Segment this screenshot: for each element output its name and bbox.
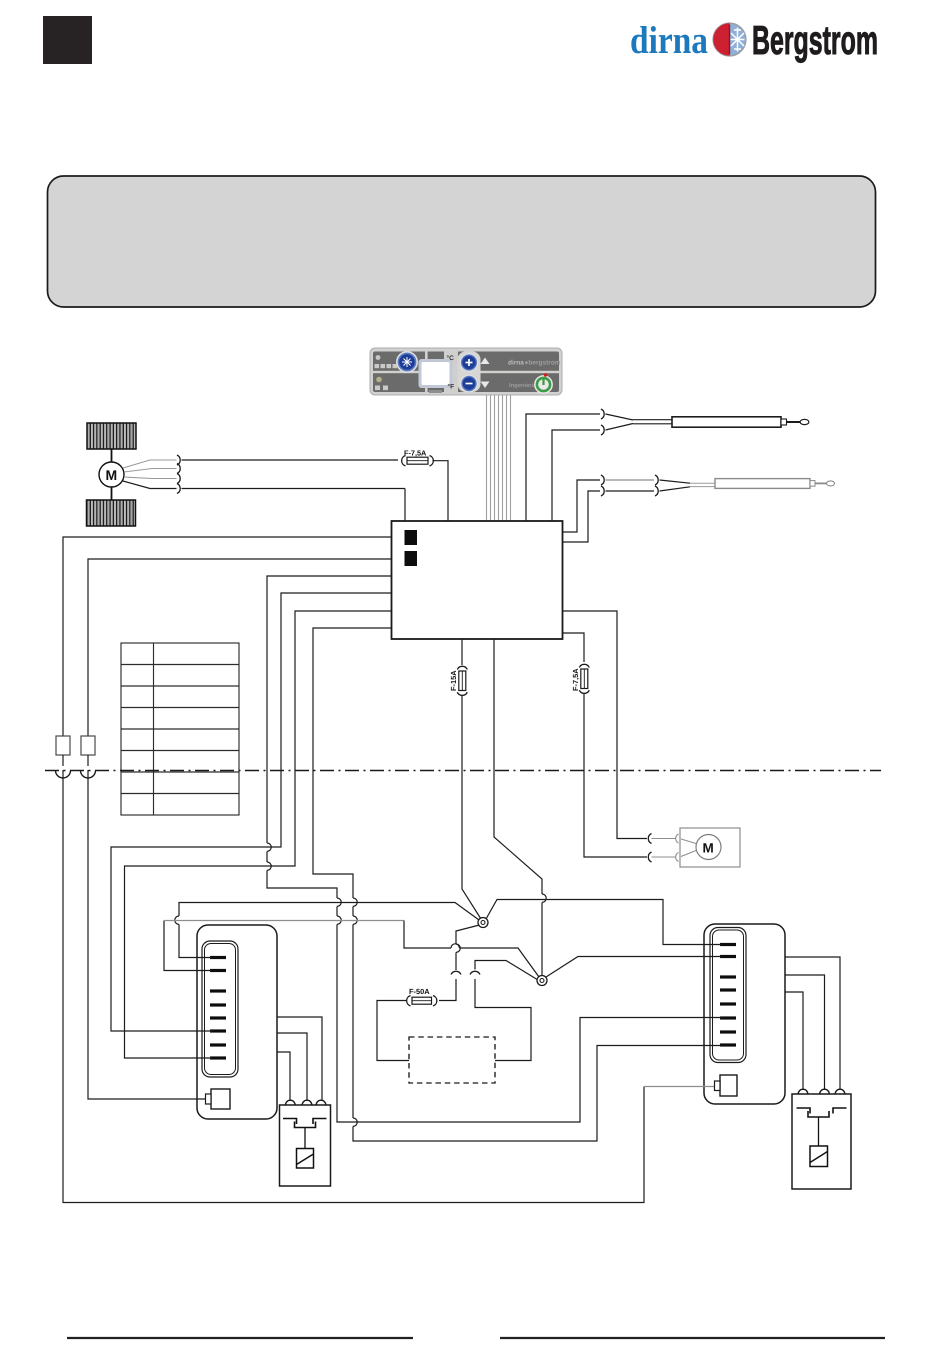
wire control unit L1 (to bulkhead connector 1)	[63, 537, 392, 736]
control unit connector mark 2	[405, 551, 418, 566]
wire junction stud 2 to condenser connector pin2	[546, 957, 721, 978]
fuse box table	[121, 643, 239, 815]
wire evap to relay1 dome1	[277, 1052, 290, 1101]
wire control unit L3 (to condenser connector pin6)	[267, 576, 392, 843]
svg-text:dirna: dirna	[630, 19, 708, 62]
control unit connector mark 1	[405, 530, 418, 545]
firewall grommet 1	[56, 771, 71, 779]
duct sensor link wires	[606, 479, 655, 481]
firewall grommet 2	[81, 771, 96, 779]
footer rule left	[67, 1337, 413, 1339]
wire control unit to cab sensor (bottom lead)	[552, 430, 600, 521]
wire control unit to duct sensor (top lead)	[563, 480, 601, 532]
wire evap pin2 riser to junction stud 2 (grey run)	[164, 921, 539, 978]
svg-text:F-50A: F-50A	[409, 987, 430, 996]
fuse F-15A	[449, 666, 467, 695]
wire evap to relay1 dome2	[277, 1033, 307, 1101]
power button	[534, 375, 553, 394]
wire condenser block to relay2 dome2	[785, 975, 825, 1090]
evaporator unit connector block (left)	[45, 537, 881, 1203]
note box (empty grey rounded rectangle)	[48, 176, 876, 307]
relay K2	[792, 1089, 851, 1189]
fuse F-7,5A (blower)	[402, 449, 434, 467]
bulkhead connector X1	[56, 736, 70, 755]
blower motor shaft	[111, 449, 113, 463]
wire control unit L5 (to evap connector pin8)	[125, 611, 392, 1058]
plus button	[460, 353, 478, 371]
firewall separation line	[45, 770, 881, 772]
junction stud 2	[537, 976, 547, 986]
condenser fan motor M2	[680, 828, 740, 867]
junction stud 1 (battery +)	[478, 918, 488, 928]
relay K1	[280, 1100, 331, 1186]
svg-text:Bergstrom: Bergstrom	[752, 17, 878, 63]
blower fan wheel bottom	[87, 500, 136, 526]
wire control unit L4 (to evap connector pin6)	[111, 593, 392, 1031]
wire junction stud 1 to condenser connector pin1	[486, 900, 721, 945]
wire starter box to junction stud 2	[475, 979, 531, 1061]
wire control unit to cab sensor (top lead)	[526, 414, 600, 521]
control panel U2	[370, 348, 562, 395]
snowflake button	[396, 351, 418, 373]
wire blower common to control unit	[182, 488, 406, 490]
blower motor leads	[123, 460, 177, 468]
svg-text:dirna: dirna	[508, 360, 524, 367]
blower motor M1	[99, 462, 124, 487]
blower fan wheel top	[87, 423, 136, 449]
wire X2 to firewall	[87, 755, 89, 766]
wire X1 to firewall	[62, 755, 64, 766]
svg-text:°C: °C	[447, 355, 455, 362]
wire control unit B2 to junction stud 2	[494, 639, 542, 894]
wire control unit L2 (to bulkhead connector 2)	[88, 559, 392, 736]
wire junction stud 1 to fuse F-50A	[456, 925, 480, 944]
starter/battery box (dashed)	[409, 1037, 495, 1083]
duct sensor connectors pair 2	[655, 475, 658, 485]
duct sensor connectors pair 1	[601, 475, 604, 485]
control unit A1	[392, 521, 563, 639]
wire control unit R3 to condenser fan motor	[563, 611, 648, 839]
svg-text:●bergstrom: ●bergstrom	[525, 360, 561, 367]
wire control unit R4 through fuse F-7,5A to condenser fan motor	[563, 633, 585, 662]
duct temperature sensor probe	[660, 479, 835, 491]
svg-text:M: M	[106, 467, 118, 483]
fuse F-7,5A (condenser)	[571, 664, 589, 693]
svg-text:F-7,5A: F-7,5A	[404, 449, 427, 458]
wire blower speed feed to fuse F-7,5A	[182, 459, 399, 461]
wire fuse F-50A to starter box	[377, 1001, 409, 1061]
wire control unit to duct sensor (bottom lead)	[563, 491, 601, 542]
harness bundle from panel to control unit	[487, 395, 511, 521]
wire evap to relay1 dome3	[277, 1017, 322, 1101]
display	[419, 359, 453, 388]
logo globe icon	[713, 23, 746, 56]
wire control unit B1 through fuse F-15A to junction stud 1	[461, 639, 463, 665]
svg-text:M: M	[703, 841, 714, 856]
bulkhead connector X2	[81, 736, 95, 755]
wire condenser block to relay2 dome1	[785, 992, 803, 1090]
cab temperature sensor probe	[606, 414, 809, 430]
wire X1 battery feed down	[63, 770, 644, 1203]
wire fuse to control unit top	[433, 461, 449, 521]
condenser unit connector block (right)	[45, 537, 881, 1203]
condenser fan connectors	[648, 834, 651, 844]
minus button	[460, 375, 478, 393]
wire X2 down	[88, 770, 206, 1099]
blower lead connectors	[177, 455, 180, 465]
svg-text:F-15A: F-15A	[449, 670, 458, 691]
wire condenser block to relay2 dome3	[785, 957, 840, 1090]
panel icons left	[375, 355, 398, 390]
up/down arrows	[481, 358, 490, 365]
svg-text:F-7,5A: F-7,5A	[571, 668, 580, 691]
page frame marker (black square)	[43, 16, 92, 64]
svg-text:Ingenieria: Ingenieria	[509, 382, 537, 389]
svg-text:°F: °F	[448, 384, 455, 391]
footer rule right	[500, 1337, 885, 1339]
wire X1 to compressor clutch connector (grey)	[644, 1086, 714, 1088]
fuse F-50A	[407, 987, 437, 1006]
wire evap pin1 riser to junction stud 1	[175, 903, 479, 958]
wire control unit L6 (to condenser connector pin8)	[313, 628, 392, 898]
cab sensor connectors	[601, 409, 604, 419]
